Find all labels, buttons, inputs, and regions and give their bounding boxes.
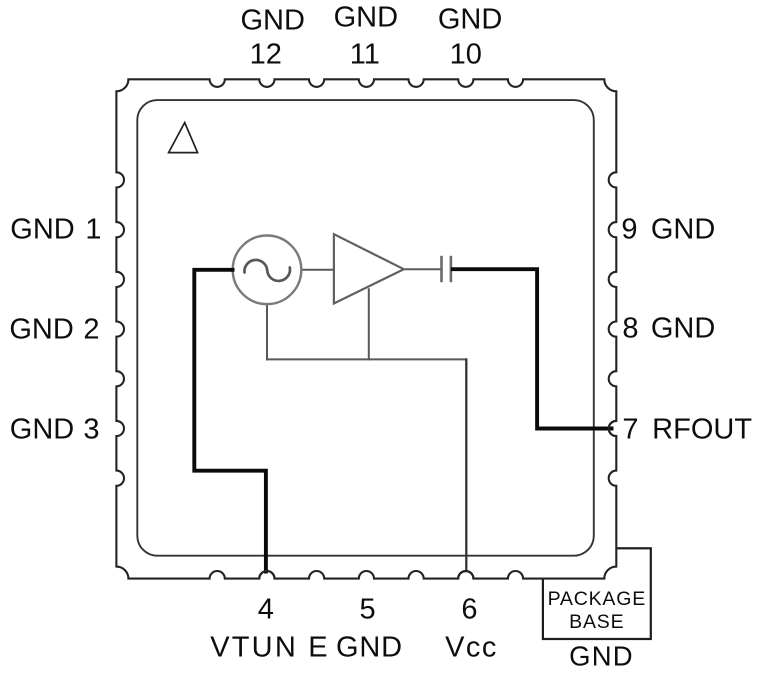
package base label xyxy=(548,588,646,634)
pin number 1 xyxy=(85,215,101,244)
wire Vcc drop to pin 6 xyxy=(465,358,467,571)
pin 3 name GND xyxy=(10,415,74,444)
pin 8 name GND xyxy=(651,315,715,344)
pin number 3 xyxy=(83,415,99,444)
pin 5 name GND xyxy=(336,633,403,662)
oscillator sine xyxy=(244,260,290,281)
capacitor C1 plates xyxy=(440,256,443,282)
pin number 11 xyxy=(350,40,380,69)
wire RFOUT thick xyxy=(451,269,614,428)
pin number 10 xyxy=(450,40,482,69)
inner die outline xyxy=(137,100,594,556)
amplifier A1 xyxy=(334,234,404,303)
pin 7 name RFOUT / net RFOUT xyxy=(652,415,752,444)
pin 12 name GND xyxy=(240,6,304,35)
wire osc to amp xyxy=(299,269,334,271)
pin 1 name GND xyxy=(10,215,74,244)
pin 6 notch redraw xyxy=(458,571,473,579)
pin number 4 xyxy=(258,596,274,625)
wire amp to cap xyxy=(403,268,442,270)
pin 1 triangle marker xyxy=(169,123,198,153)
pin 4 name VTUNE / net VTUNE xyxy=(210,633,330,662)
pin 7 notch redraw xyxy=(609,421,617,436)
pin number 12 xyxy=(250,40,282,69)
pin 9 name GND xyxy=(651,215,715,244)
pin 4 notch redraw xyxy=(259,571,274,579)
pin number 9 xyxy=(621,215,637,244)
oscillator U1 circle xyxy=(233,235,302,304)
package base box xyxy=(543,548,651,639)
pin number 2 xyxy=(83,316,99,345)
package outline xyxy=(116,79,616,578)
pin number 7 xyxy=(622,415,638,444)
pin 10 name GND xyxy=(438,6,502,35)
wire VTUNE thick xyxy=(194,270,266,574)
wire amp bottom xyxy=(368,288,370,360)
pin 6 name Vcc / net Vcc xyxy=(445,633,498,662)
wire osc bottom xyxy=(266,302,268,360)
pin number 5 xyxy=(360,596,376,625)
package base net GND xyxy=(569,641,634,670)
pin number 8 xyxy=(622,315,638,344)
pin number 6 xyxy=(461,596,477,625)
wire bias horizontal xyxy=(266,358,467,360)
pin 11 name GND xyxy=(334,3,398,32)
pin 2 name GND xyxy=(9,316,73,345)
